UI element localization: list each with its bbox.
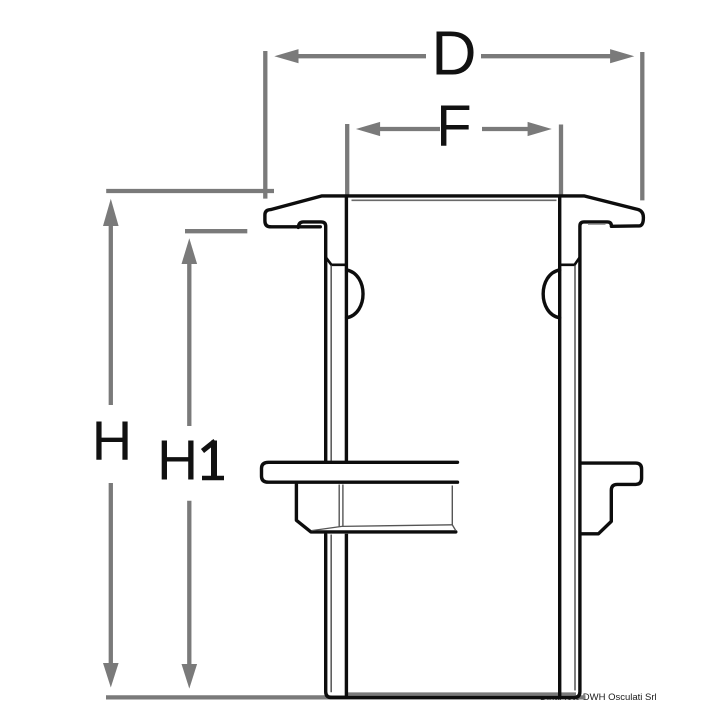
arrowhead F right bbox=[528, 122, 552, 136]
thin thread line right bbox=[574, 266, 576, 691]
inner wall left upper bbox=[345, 197, 348, 461]
flange head outline: left tip, top, right tip, right underside bbox=[265, 196, 644, 227]
arrowhead H down bbox=[103, 663, 119, 688]
inner wall right (continuous) bbox=[558, 197, 561, 696]
arrowhead F left bbox=[356, 122, 380, 136]
bump right (gasket) bbox=[543, 270, 559, 318]
right chamfer jog bbox=[560, 257, 580, 265]
nut hex inner thin lines bbox=[338, 485, 340, 527]
svg-text:F: F bbox=[436, 94, 471, 159]
bump left (gasket) bbox=[347, 270, 363, 318]
pipe end inner edge (gray) bbox=[348, 692, 576, 695]
dimension extension line F left bbox=[345, 124, 349, 195]
arrowhead H up bbox=[103, 199, 119, 226]
washer left (section) bbox=[262, 462, 458, 482]
dimension line D right segment bbox=[481, 54, 611, 58]
dimension line H1 lower segment bbox=[187, 501, 191, 665]
dimension line D left segment bbox=[298, 54, 427, 58]
nut left outline bbox=[296, 484, 455, 532]
label H1: 1 glyph (with foot serif) bbox=[211, 441, 217, 477]
dimension line H lower segment bbox=[109, 483, 113, 664]
nut right thin edge bbox=[452, 486, 456, 531]
dimension line F left segment bbox=[380, 127, 441, 131]
thin thread line left lower bbox=[330, 535, 332, 693]
inner wall left lower bbox=[345, 534, 348, 697]
left step under flange + outer wall upper segment bbox=[298, 222, 325, 461]
dimension line H1 upper segment bbox=[187, 263, 191, 426]
baseline at bottom bbox=[106, 695, 586, 699]
dimension extension line F right bbox=[559, 125, 563, 195]
dimension extension line D left bbox=[263, 51, 267, 199]
extension line H1 (under flange) bbox=[185, 229, 247, 233]
right step thin line bbox=[588, 223, 606, 225]
svg-text:D: D bbox=[431, 19, 476, 89]
arrowhead H1 down bbox=[182, 664, 198, 689]
svg-text:H: H bbox=[92, 409, 132, 472]
flange inner top thin line bbox=[352, 199, 557, 201]
dimension line H upper segment bbox=[109, 225, 113, 405]
outer silhouette: left wall lower, bottom, right wall, right step bbox=[326, 222, 612, 698]
arrowhead D left bbox=[274, 49, 298, 63]
nut chamfer thin diagonals bbox=[312, 525, 453, 531]
arrowhead D right bbox=[610, 49, 634, 63]
thin thread line left upper bbox=[330, 266, 332, 462]
washer right (outline view) bbox=[581, 463, 642, 534]
svg-text:H: H bbox=[157, 429, 198, 493]
dimension extension line D right bbox=[640, 52, 644, 200]
flange underside left bbox=[270, 225, 320, 228]
left chamfer jog bbox=[326, 257, 347, 265]
arrowhead H1 up bbox=[182, 238, 198, 264]
dimension line F right segment bbox=[482, 127, 529, 131]
extension line H (top of flange) bbox=[106, 189, 274, 193]
